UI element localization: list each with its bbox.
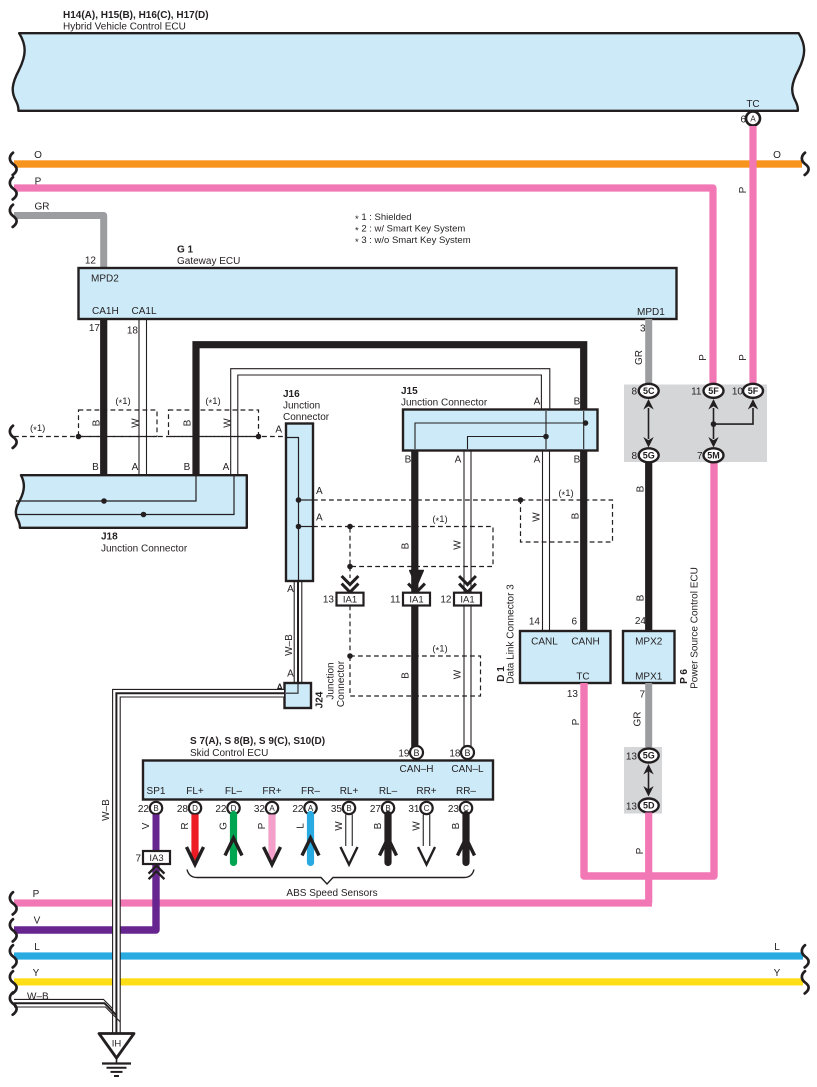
svg-text:12: 12 [440, 595, 452, 606]
svg-text:IH: IH [112, 1039, 122, 1050]
wire P FR+ with down arrow [257, 815, 281, 865]
svg-text:B: B [401, 672, 412, 679]
svg-text:10: 10 [732, 387, 744, 398]
arrow 5F(11)-5M [708, 399, 718, 448]
wire L FR- with up arrow [296, 815, 320, 863]
svg-text:IA1: IA1 [343, 595, 357, 606]
svg-text:J15: J15 [401, 386, 418, 397]
skid control ECU S7-S10 [190, 736, 325, 759]
J15 internal wiring [415, 411, 586, 449]
svg-text:CAN–H: CAN–H [400, 764, 434, 775]
connector IA1 pin11 [390, 571, 430, 606]
svg-text:A: A [287, 584, 294, 595]
torn ends L band [10, 945, 17, 967]
svg-text:P: P [738, 186, 749, 193]
svg-text:B: B [401, 542, 412, 549]
svg-text:P: P [35, 177, 42, 188]
svg-text:C: C [424, 804, 430, 813]
torn end left V band [10, 919, 17, 941]
J16 internal wiring [287, 438, 312, 581]
svg-text:8: 8 [631, 451, 637, 462]
svg-text:TC: TC [746, 99, 759, 110]
svg-text:CANL: CANL [531, 637, 558, 648]
svg-text:11: 11 [390, 595, 401, 606]
pin 6 circle A [740, 112, 760, 126]
wire W RR+ with down arrow [412, 815, 436, 865]
svg-text:14: 14 [529, 617, 541, 628]
svg-text:G: G [219, 822, 230, 830]
svg-text:5M: 5M [707, 451, 720, 461]
svg-text:31: 31 [408, 804, 420, 815]
svg-text:CA1H: CA1H [92, 306, 119, 317]
svg-text:27: 27 [370, 804, 382, 815]
connector 5D pin13 [626, 799, 659, 813]
svg-text:RL+: RL+ [340, 786, 359, 797]
svg-text:A: A [132, 462, 139, 473]
wire W-B J16 to J24 [284, 581, 302, 683]
svg-text:Power Source Control ECU: Power Source Control ECU [690, 567, 701, 689]
svg-text:35: 35 [331, 804, 343, 815]
svg-text:RR+: RR+ [416, 786, 436, 797]
junction connector J18 [16, 475, 247, 554]
shield dashed link IA1(13) to lower shield box [349, 606, 351, 657]
svg-text:A: A [534, 397, 541, 408]
junction connector J24 [276, 660, 347, 708]
svg-text:5D: 5D [643, 801, 655, 811]
svg-text:13: 13 [323, 595, 335, 606]
svg-text:P: P [257, 822, 268, 829]
J18 internal wiring [15, 476, 234, 515]
svg-text:L: L [34, 942, 40, 953]
svg-text:Junction: Junction [326, 662, 337, 699]
svg-text:FL–: FL– [225, 786, 243, 797]
legend notes [355, 212, 471, 248]
svg-text:GR: GR [633, 712, 644, 727]
svg-text:W: W [223, 418, 234, 428]
wire GR MPX1 to 5G(13) [633, 683, 653, 749]
torn end left O [10, 153, 17, 175]
ground IH [99, 1034, 134, 1077]
svg-text:B: B [153, 804, 158, 813]
brace ABS speed sensors [187, 870, 474, 900]
svg-text:B: B [405, 455, 412, 466]
svg-text:P: P [571, 718, 582, 725]
svg-text:18: 18 [127, 326, 139, 337]
wire L band [14, 942, 803, 960]
svg-text:V: V [141, 822, 152, 829]
svg-text:Hybrid Vehicle Control ECU: Hybrid Vehicle Control ECU [63, 22, 186, 33]
J24 internal wiring [286, 684, 298, 693]
svg-text:W–B: W–B [27, 992, 49, 1003]
hybrid vehicle control ECU H14-H17 [13, 10, 804, 111]
svg-text:A: A [275, 425, 282, 436]
svg-text:5G: 5G [643, 751, 655, 761]
wire GR gray to gateway pin 12 [14, 202, 104, 269]
svg-text:RR–: RR– [456, 786, 476, 797]
svg-text:23: 23 [448, 804, 460, 815]
svg-text:22: 22 [138, 804, 150, 815]
svg-text:B: B [464, 748, 470, 758]
svg-text:Junction Connector: Junction Connector [401, 398, 488, 409]
svg-text:Connector: Connector [336, 660, 347, 707]
wire V SP1 to IA3 to left [14, 815, 156, 931]
pin labels above J18 [92, 462, 230, 473]
connector 5F pin11 [691, 384, 723, 398]
wire B 5G to MPX2 [635, 463, 652, 632]
svg-text:ABS Speed Sensors: ABS Speed Sensors [286, 888, 377, 899]
svg-text:P: P [33, 889, 40, 900]
svg-text:W: W [532, 512, 543, 522]
arrow 5C-5G [643, 399, 653, 448]
svg-text:SP1: SP1 [147, 786, 166, 797]
svg-text:Junction: Junction [283, 401, 320, 412]
svg-text:W–B: W–B [284, 634, 295, 656]
shield dashed link down to IA1(13) [349, 567, 351, 579]
shield box (*1) lower over B/W CAN wires [350, 644, 481, 697]
svg-text:13: 13 [626, 802, 638, 813]
connector 5F pin10 [732, 384, 763, 398]
shield box (*1) over CA1H/CA1L [79, 396, 158, 437]
svg-text:FR–: FR– [301, 786, 320, 797]
wire W pair J15 to D1 CANL [543, 450, 550, 631]
svg-text:RL–: RL– [379, 786, 398, 797]
svg-text:B: B [574, 397, 581, 408]
svg-text:P 6: P 6 [679, 669, 690, 684]
svg-text:S 7(A), S 8(B), S 9(C), S10(D): S 7(A), S 8(B), S 9(C), S10(D) [190, 736, 325, 747]
svg-text:8: 8 [631, 387, 637, 398]
shield dashed line (*1) left [14, 423, 286, 439]
wire G FL- with up arrow [219, 815, 243, 863]
torn ends Y band [10, 971, 17, 993]
svg-text:Connector: Connector [283, 412, 330, 423]
svg-text:P: P [698, 354, 709, 361]
svg-text:IA1: IA1 [460, 595, 474, 606]
svg-text:22: 22 [292, 804, 304, 815]
wire B J18 to J15 thick corner [196, 345, 584, 475]
svg-text:B: B [92, 462, 99, 473]
svg-text:W–B: W–B [101, 799, 112, 821]
svg-text:L: L [296, 823, 307, 829]
shield dashed line A from J16 to lower shield [313, 513, 353, 530]
connector IA1 pin13 [323, 576, 364, 606]
torn end left P [10, 177, 17, 199]
connector 5M pin7 [697, 448, 724, 462]
svg-text:B: B [451, 822, 462, 829]
wire B RL- with up arrow [373, 815, 397, 863]
svg-text:5F: 5F [708, 386, 719, 396]
svg-text:Junction Connector: Junction Connector [101, 544, 188, 555]
svg-text:Data Link Connector 3: Data Link Connector 3 [506, 584, 517, 684]
wire W-B band to left [14, 992, 120, 1022]
wire B J15 to IA1(11) to skid CAN-H [411, 450, 418, 593]
svg-text:A: A [316, 513, 323, 524]
svg-text:IA1: IA1 [409, 595, 423, 606]
shield box (*1) over D1 wires [521, 488, 613, 542]
wire W pair J15 to IA1(12) to skid CAN-L [464, 450, 471, 747]
svg-text:5C: 5C [643, 386, 655, 396]
shield dashed line A from J16 to D1 shield [313, 486, 523, 503]
svg-text:J24: J24 [315, 691, 326, 708]
torn end left W-B [10, 992, 17, 1014]
svg-text:FR+: FR+ [262, 786, 281, 797]
svg-text:32: 32 [254, 804, 266, 815]
wire B CA1H pin17 to J18 [100, 319, 107, 475]
wire W pair J18 to J15 [231, 369, 550, 475]
wire Y band [14, 968, 803, 986]
wire O orange horizontal [14, 150, 802, 168]
wire P pink vertical from TC pin to 5F(10) [738, 126, 753, 388]
svg-text:13: 13 [567, 689, 579, 700]
data link connector D1 [496, 584, 611, 700]
wire P 5D down to P band [635, 813, 649, 904]
svg-text:B: B [636, 485, 647, 492]
svg-text:P: P [738, 354, 749, 361]
svg-text:J16: J16 [283, 389, 300, 400]
svg-text:5F: 5F [748, 386, 759, 396]
svg-text:O: O [773, 150, 781, 161]
svg-text:12: 12 [85, 256, 97, 267]
junction connector J15 [401, 386, 598, 466]
svg-text:L: L [774, 942, 780, 953]
torn end left GR [10, 205, 17, 227]
torn end right O [802, 153, 809, 175]
svg-text:B: B [92, 419, 103, 426]
svg-text:22: 22 [215, 804, 227, 815]
wire W CA1L pin18 to J18 [139, 319, 147, 475]
svg-text:A: A [269, 804, 275, 813]
svg-text:GR: GR [35, 202, 50, 213]
svg-text:7: 7 [639, 690, 645, 701]
svg-text:A: A [223, 462, 230, 473]
svg-text:W: W [453, 540, 464, 550]
connector 5G pin13 [626, 749, 659, 763]
svg-text:6: 6 [571, 617, 577, 628]
svg-text:MPD2: MPD2 [91, 274, 119, 285]
torn end left P band [10, 892, 17, 914]
svg-text:B: B [413, 748, 419, 758]
connector IA1 pin12 [440, 576, 481, 606]
wire W-B J24 to ground (drawn over bands) [101, 683, 284, 1034]
wire W RL+ with down arrow [334, 815, 358, 865]
svg-text:Skid Control ECU: Skid Control ECU [190, 748, 268, 759]
svg-text:Y: Y [774, 968, 781, 979]
svg-text:B: B [373, 822, 384, 829]
svg-text:A: A [316, 486, 323, 497]
svg-text:CA1L: CA1L [132, 306, 157, 317]
svg-text:CANH: CANH [571, 637, 599, 648]
wire R FL+ with down arrow [180, 815, 204, 865]
svg-text:H14(A), H15(B), H16(C), H17(D): H14(A), H15(B), H16(C), H17(D) [63, 10, 209, 21]
svg-text:Y: Y [33, 968, 40, 979]
svg-text:IA3: IA3 [149, 853, 163, 864]
svg-text:A: A [455, 455, 462, 466]
svg-text:MPX1: MPX1 [635, 672, 663, 683]
svg-text:O: O [34, 150, 42, 161]
junction connector J16 [283, 389, 330, 581]
relay block gray box lower [624, 747, 662, 814]
svg-text:W: W [131, 418, 142, 428]
power source control ECU P6 [623, 567, 701, 700]
connector 5G pin8 [631, 448, 658, 462]
svg-text:B: B [183, 419, 194, 426]
svg-text:5G: 5G [643, 451, 655, 461]
svg-text:28: 28 [177, 804, 189, 815]
svg-text:A: A [287, 669, 294, 680]
svg-text:B: B [184, 462, 191, 473]
svg-text:B: B [574, 455, 581, 466]
svg-text:TC: TC [576, 672, 589, 683]
svg-text:J18: J18 [101, 532, 118, 543]
svg-text:3: 3 [640, 324, 646, 335]
wire P pink horizontal to 5F(11) [14, 177, 713, 389]
connector IA3 pin7 [135, 851, 170, 879]
pin 19 circle B CAN-H [398, 746, 423, 760]
svg-text:B: B [636, 594, 647, 601]
svg-text:FL+: FL+ [186, 786, 204, 797]
svg-text:MPD1: MPD1 [637, 307, 665, 318]
shield box (*1) over B/W to J15 [169, 396, 259, 437]
arrow 5F(10) link [711, 399, 759, 427]
svg-text:18: 18 [449, 749, 461, 760]
svg-text:11: 11 [691, 387, 702, 398]
svg-text:A: A [534, 455, 541, 466]
skid control ECU box [143, 761, 493, 800]
svg-text:MPX2: MPX2 [635, 637, 663, 648]
svg-text:W: W [412, 821, 423, 831]
wire B RR- with up arrow [451, 815, 475, 863]
relay block gray box top [624, 385, 767, 463]
svg-text:7: 7 [135, 854, 141, 865]
gateway ECU G1 [79, 245, 677, 337]
svg-text:Gateway ECU: Gateway ECU [177, 256, 240, 267]
svg-text:W: W [334, 821, 345, 831]
svg-text:V: V [34, 916, 41, 927]
svg-text:19: 19 [398, 749, 410, 760]
svg-text:B: B [571, 512, 582, 519]
skid lower pin circles [138, 802, 472, 815]
wire GR pin3 to 5C [645, 319, 652, 385]
svg-text:G 1: G 1 [177, 245, 194, 256]
arrow 5G-5D [643, 764, 653, 797]
svg-text:B: B [346, 804, 351, 813]
svg-text:24: 24 [635, 616, 647, 627]
wire B J15 to D1 CANH [580, 450, 587, 631]
torn end dashed [10, 426, 17, 448]
connector 5C pin8 [631, 384, 658, 398]
svg-text:P: P [635, 847, 646, 854]
svg-text:A: A [750, 115, 756, 124]
shield box (*1) upper over B/W CAN wires [350, 514, 493, 567]
svg-text:17: 17 [89, 323, 101, 334]
svg-text:D: D [192, 804, 198, 813]
svg-text:13: 13 [626, 752, 638, 763]
wire P D1 TC to 5M [571, 462, 714, 876]
wire P band bottom [14, 889, 652, 907]
svg-text:GR: GR [634, 350, 645, 365]
svg-text:R: R [180, 822, 191, 829]
svg-text:W: W [453, 669, 464, 679]
svg-text:7: 7 [697, 451, 703, 462]
pin 18 circle B CAN-L [449, 746, 474, 760]
svg-text:CAN–L: CAN–L [451, 764, 484, 775]
